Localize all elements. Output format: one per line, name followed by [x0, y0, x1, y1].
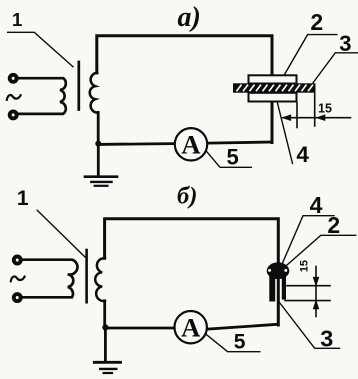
svg-text:3: 3	[320, 326, 333, 352]
svg-text:б): б)	[177, 183, 197, 210]
svg-text:4: 4	[296, 142, 309, 167]
svg-text:15: 15	[318, 102, 332, 116]
svg-text:3: 3	[339, 31, 351, 56]
svg-text:1: 1	[12, 9, 22, 30]
svg-text:5: 5	[234, 330, 246, 353]
svg-text:A: A	[181, 313, 200, 343]
svg-text:A: A	[181, 130, 200, 160]
svg-text:15: 15	[299, 260, 311, 272]
svg-text:2: 2	[327, 212, 340, 238]
svg-text:5: 5	[227, 145, 239, 170]
svg-text:2: 2	[310, 9, 323, 35]
svg-text:1: 1	[17, 187, 29, 210]
svg-text:4: 4	[310, 192, 323, 218]
svg-text:а): а)	[178, 2, 201, 33]
